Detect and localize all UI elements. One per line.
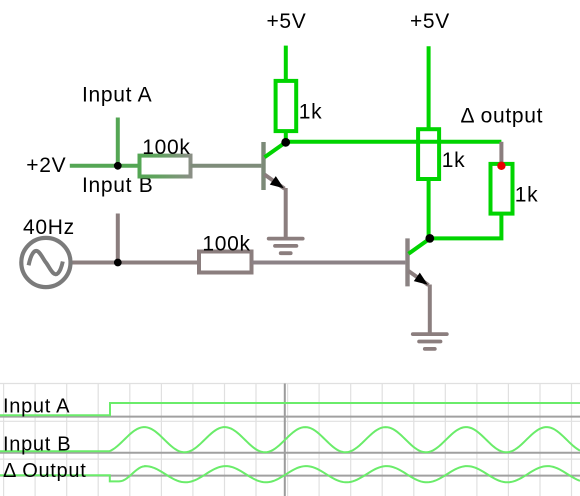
resistor R2 1k [418, 129, 439, 179]
wire +5V left to R1 [284, 46, 288, 81]
trace Input A [0, 403, 580, 415]
wire R2 to node B [427, 179, 431, 238]
svg-text:Input A: Input A [82, 84, 152, 107]
svg-text:100k: 100k [202, 233, 250, 256]
trace Delta Output [0, 466, 580, 482]
wire V1 to J2 [73, 261, 201, 265]
wire R5 to Q2 base [252, 261, 406, 265]
transistor Q1 [264, 142, 286, 190]
scope panel grid [0, 384, 580, 496]
ground G2 [413, 334, 447, 349]
node B dot [425, 234, 434, 243]
wire R1 to node A [284, 131, 288, 142]
wire R4 to Q1 base [191, 164, 262, 168]
wire Q2 emitter to ground [428, 285, 432, 333]
wire Q1 emitter to ground [284, 188, 288, 237]
axis Delta Output [0, 475, 580, 477]
axis Input A [0, 416, 580, 418]
svg-text:+2V: +2V [26, 154, 66, 177]
resistor R3 1k [491, 164, 513, 214]
node A dot [281, 138, 290, 147]
svg-text:1k: 1k [515, 183, 539, 206]
node J2 [114, 259, 122, 267]
wire R3 to node B [430, 214, 502, 239]
scope time cursor [284, 384, 286, 496]
svg-text:Input A: Input A [3, 396, 70, 418]
svg-text:+5V: +5V [266, 10, 306, 33]
node J1 [114, 162, 122, 170]
resistor R5 100k [199, 252, 252, 273]
svg-text:+5V: +5V [410, 10, 450, 33]
trace Input B [0, 427, 580, 452]
wire output stub gray [499, 142, 503, 162]
wire Input B stub [116, 214, 120, 263]
ground G1 [269, 239, 303, 254]
svg-text:100k: 100k [142, 136, 190, 159]
svg-text:Δ output: Δ output [461, 104, 544, 127]
svg-text:40Hz: 40Hz [23, 216, 75, 239]
wire node A to output corner [286, 140, 502, 144]
source V1 40Hz [21, 238, 70, 287]
svg-text:Input B: Input B [3, 434, 71, 456]
svg-text:1k: 1k [442, 149, 466, 172]
wire crossing R2 [416, 140, 441, 144]
node output red dot [497, 162, 505, 170]
resistor R4 100k [140, 156, 191, 177]
wire +5V right to R2 [427, 46, 431, 129]
wire Input A stub [116, 118, 120, 166]
resistor R1 1k [276, 81, 297, 131]
wire +2V to R4 [70, 164, 141, 168]
svg-text:Δ Output: Δ Output [3, 460, 86, 482]
axis Input B [0, 452, 580, 454]
svg-text:1k: 1k [299, 101, 323, 124]
transistor Q2 [408, 238, 430, 286]
